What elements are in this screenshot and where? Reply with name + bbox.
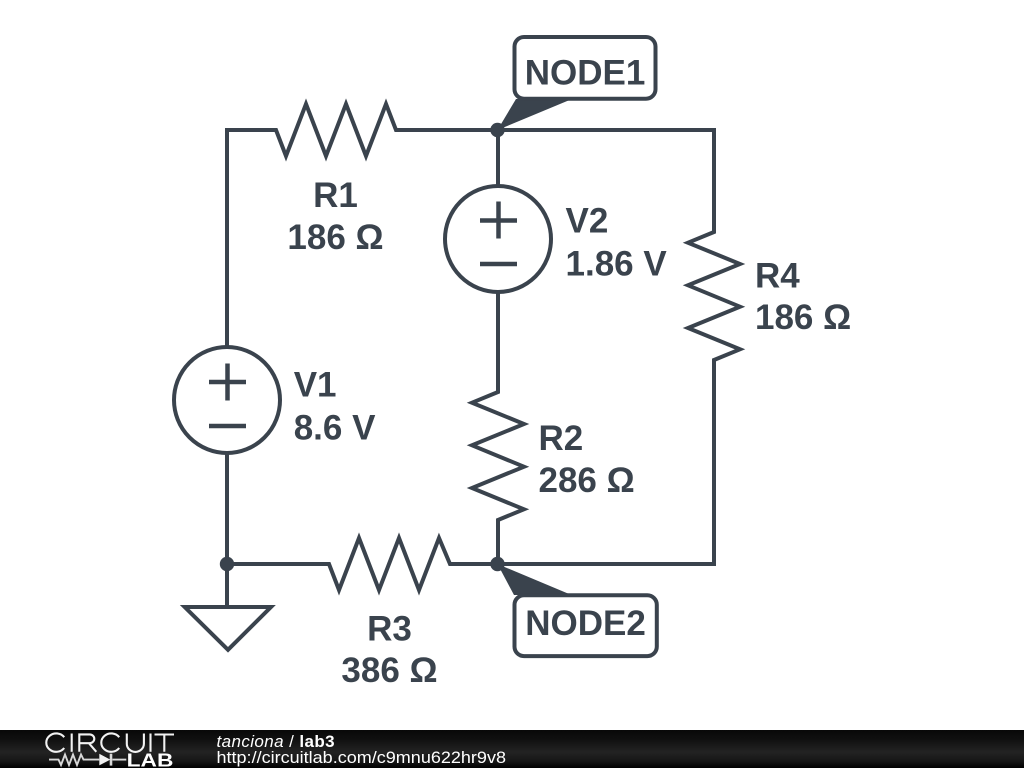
svg-text:http://circuitlab.com/c9mnu622: http://circuitlab.com/c9mnu622hr9v8 (217, 749, 507, 767)
svg-text:8.6 V: 8.6 V (294, 409, 376, 448)
svg-text:tanciona / lab3: tanciona / lab3 (217, 732, 335, 751)
svg-text:286 Ω: 286 Ω (539, 461, 635, 500)
svg-text:R2: R2 (539, 419, 584, 458)
svg-text:186 Ω: 186 Ω (755, 298, 851, 337)
svg-text:LAB: LAB (127, 751, 174, 768)
svg-text:386 Ω: 386 Ω (341, 651, 437, 690)
svg-text:186 Ω: 186 Ω (287, 218, 383, 257)
svg-text:R1: R1 (313, 176, 358, 215)
svg-text:R4: R4 (755, 257, 800, 296)
svg-text:NODE2: NODE2 (525, 604, 646, 643)
svg-text:NODE1: NODE1 (525, 54, 646, 93)
svg-text:V1: V1 (294, 366, 337, 405)
svg-text:V2: V2 (566, 202, 609, 241)
svg-text:R3: R3 (367, 610, 412, 649)
svg-text:1.86 V: 1.86 V (566, 245, 668, 284)
